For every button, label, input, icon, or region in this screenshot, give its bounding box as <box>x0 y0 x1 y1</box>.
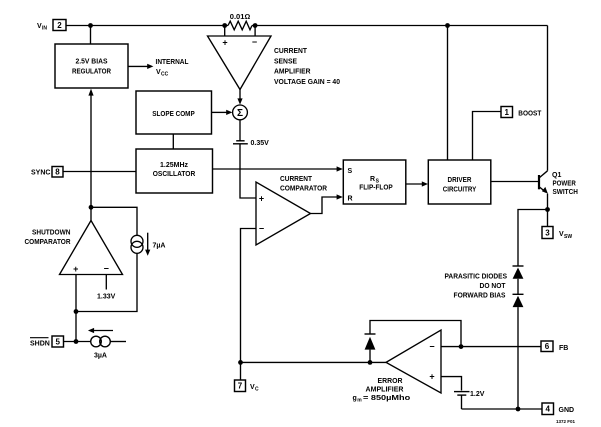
svg-text:g: g <box>353 395 357 402</box>
svg-text:FLIP-FLOP: FLIP-FLOP <box>359 184 393 191</box>
svg-text:+: + <box>222 38 227 48</box>
pin 3 VSW <box>542 227 553 239</box>
wire VSW node to pin 3 <box>547 210 549 227</box>
label SHUTDOWN COMPARATOR <box>25 230 71 246</box>
svg-text:BOOST: BOOST <box>518 110 542 117</box>
pin SHDN label (overline) <box>30 341 50 348</box>
svg-text:SHUTDOWN: SHUTDOWN <box>32 230 71 237</box>
wire Q1 collector to VIN rail <box>547 26 549 171</box>
junction dot resistor left node <box>222 23 227 28</box>
junction dot VIN/driver branch <box>445 23 450 28</box>
diode D1 parasitic <box>513 266 524 279</box>
diode D3 clamp <box>365 334 376 350</box>
wire driver to BOOST pin <box>473 112 502 161</box>
svg-text:INTERNAL: INTERNAL <box>156 59 190 66</box>
wire Q1 emitter to VSW node <box>547 194 549 210</box>
op-amp shutdown comparator <box>60 221 123 275</box>
battery 0.35V <box>233 141 248 144</box>
label INTERNAL VCC <box>156 59 190 78</box>
wire SHDN line <box>64 341 91 343</box>
svg-text:−: − <box>429 342 434 352</box>
wire sense amp output to summer <box>239 90 241 100</box>
svg-text:SYNC: SYNC <box>31 170 50 177</box>
label Q1 POWER SWITCH <box>552 172 578 196</box>
battery 1.2V <box>454 392 470 396</box>
wire internal VCC output arrow <box>128 64 153 69</box>
wire shutdown + input to SHDN line <box>75 275 77 342</box>
label PARASITIC DIODES DO NOT FORWARD BIAS <box>445 274 508 300</box>
pin 7 VC <box>235 380 246 392</box>
wire slope comp to oscillator <box>172 134 174 149</box>
wire VIN top rail right segment <box>252 25 548 27</box>
wire slope comp to summer <box>212 111 228 113</box>
svg-text:CIRCUITRY: CIRCUITRY <box>443 187 477 194</box>
svg-text:1372 F01: 1372 F01 <box>556 419 576 424</box>
svg-text:R: R <box>370 176 375 183</box>
wire VSW node to parasitic diode chain <box>518 210 548 267</box>
transistor Q1 <box>539 171 548 194</box>
op-amp current sense amplifier <box>208 36 272 90</box>
wire error amp - input to FB pin <box>441 346 541 348</box>
reference 1.33V stub <box>105 275 107 290</box>
label CURRENT SENSE AMPLIFIER VOLTAGE GAIN = 40 <box>274 48 340 86</box>
wire 3uA source right stub <box>110 341 126 343</box>
resistor 0.01Ω current sense <box>228 21 252 30</box>
wire bias regulator to shutdown comparator (arrow up) <box>88 89 93 221</box>
junction dot VSW node <box>545 207 550 212</box>
svg-text:SW: SW <box>564 234 572 240</box>
arrow 3uA direction <box>88 328 113 333</box>
wire 7uA source to + input node <box>76 253 137 311</box>
wire VIN rail to driver top <box>447 26 449 161</box>
svg-text:3: 3 <box>545 228 550 237</box>
svg-text:+: + <box>259 194 264 204</box>
svg-text:R: R <box>348 196 353 203</box>
wire battery to ground rail <box>461 395 463 409</box>
junction dot resistor right node <box>253 23 258 28</box>
wire ground rail <box>462 408 543 410</box>
svg-text:IN: IN <box>42 26 47 32</box>
wire VIN to bias regulator <box>90 26 92 45</box>
svg-text:SENSE: SENSE <box>274 58 297 65</box>
svg-text:CC: CC <box>161 72 169 78</box>
junction dot VC node <box>238 360 243 365</box>
svg-text:AMPLIFIER: AMPLIFIER <box>366 386 404 393</box>
svg-text:GND: GND <box>559 407 575 414</box>
svg-text:S: S <box>348 168 353 175</box>
op-amp current comparator <box>256 182 311 245</box>
pin 4 GND <box>542 403 554 415</box>
label VC <box>250 384 259 393</box>
block RS flip-flop <box>343 160 406 204</box>
wire clamp diode to error amp output <box>369 350 371 363</box>
wire sense amp - input stub <box>254 26 256 37</box>
svg-text:COMPARATOR: COMPARATOR <box>280 185 327 192</box>
svg-text:POWER: POWER <box>553 181 576 188</box>
svg-text:7µA: 7µA <box>153 243 166 250</box>
arrow 7uA direction <box>145 233 150 256</box>
svg-text:CURRENT: CURRENT <box>274 48 308 55</box>
pin 1 BOOST <box>501 107 513 118</box>
block slope comp <box>136 91 212 134</box>
svg-text:7: 7 <box>238 382 243 391</box>
wire error amp output to VC node <box>241 361 387 363</box>
block 1.25MHz oscillator <box>136 149 213 193</box>
current source 3uA <box>91 336 111 347</box>
wire oscillator to flip-flop S input <box>213 166 343 171</box>
block driver circuitry <box>428 160 491 204</box>
svg-text:0.01Ω: 0.01Ω <box>230 14 251 21</box>
svg-text:4: 4 <box>545 405 550 414</box>
svg-text:1.33V: 1.33V <box>97 293 116 300</box>
label ERROR AMPLIFIER gm = 850uMho <box>353 378 411 404</box>
wire between parasitic diodes <box>517 279 519 295</box>
svg-text:REGULATOR: REGULATOR <box>72 69 111 76</box>
label VSW <box>559 231 572 240</box>
svg-text:DRIVER: DRIVER <box>448 177 472 184</box>
svg-text:= 850µMho: = 850µMho <box>363 395 410 402</box>
svg-text:+: + <box>73 264 78 274</box>
svg-text:8: 8 <box>55 168 60 177</box>
wire comparator - input to VC node <box>241 229 257 363</box>
svg-text:COMPARATOR: COMPARATOR <box>25 239 71 246</box>
svg-text:0.35V: 0.35V <box>251 140 270 147</box>
svg-text:−: − <box>104 264 109 274</box>
svg-text:6: 6 <box>545 342 550 351</box>
wire VIN top rail left segment <box>66 25 228 27</box>
svg-text:m: m <box>357 398 362 404</box>
svg-text:CURRENT: CURRENT <box>280 176 313 183</box>
svg-text:5: 5 <box>55 337 60 346</box>
svg-text:1.25MHz: 1.25MHz <box>160 162 188 169</box>
svg-text:2.5V BIAS: 2.5V BIAS <box>76 59 108 66</box>
svg-text:+: + <box>429 372 434 382</box>
pin 6 FB <box>541 341 553 352</box>
wire comparator output to flip-flop R input <box>311 194 343 213</box>
wire SYNC to oscillator <box>63 171 136 173</box>
svg-text:1: 1 <box>504 108 509 117</box>
wire summer to battery 0.35V <box>239 120 241 141</box>
wire sense amp + input stub <box>224 26 226 37</box>
svg-text:VOLTAGE GAIN = 40: VOLTAGE GAIN = 40 <box>274 79 340 86</box>
svg-text:DO NOT: DO NOT <box>480 283 507 290</box>
svg-text:SLOPE COMP: SLOPE COMP <box>152 111 195 118</box>
junction dot FB node <box>459 344 464 349</box>
svg-text:OSCILLATOR: OSCILLATOR <box>153 171 196 178</box>
junction dot error amp output / clamp diode <box>368 360 373 365</box>
wire error amp + input to 1.2V battery <box>441 377 462 391</box>
wire driver to Q1 base <box>491 181 539 183</box>
pin 8 SYNC <box>52 167 63 178</box>
svg-text:SHDN: SHDN <box>30 341 50 348</box>
wire battery to comparator + input <box>240 144 256 198</box>
summer node sigma <box>233 105 248 120</box>
svg-text:C: C <box>255 387 259 393</box>
svg-text:3µA: 3µA <box>94 353 107 360</box>
current source 7uA <box>131 235 143 253</box>
diode D2 parasitic <box>513 294 524 307</box>
wire diode chain to ground rail <box>517 307 519 409</box>
label CURRENT COMPARATOR <box>280 176 327 192</box>
svg-text:PARASITIC DIODES: PARASITIC DIODES <box>445 274 508 281</box>
svg-text:2: 2 <box>57 21 62 30</box>
svg-text:FB: FB <box>559 345 568 352</box>
junction dot shutdown apex node <box>89 205 94 210</box>
pin 2 VIN <box>53 20 66 31</box>
svg-text:Q1: Q1 <box>552 172 561 179</box>
wire apex node to 7uA current source <box>91 207 137 235</box>
junction dot VIN/bias-regulator <box>88 23 93 28</box>
wire clamp diode loop FB node <box>370 321 461 347</box>
junction dot diode chain / ground <box>516 407 521 412</box>
svg-text:FORWARD BIAS: FORWARD BIAS <box>454 292 506 299</box>
svg-text:SWITCH: SWITCH <box>553 189 578 196</box>
svg-text:ERROR: ERROR <box>378 378 403 385</box>
op-amp error amplifier <box>386 330 441 393</box>
svg-text:1.2V: 1.2V <box>470 391 485 398</box>
svg-text:−: − <box>252 37 257 47</box>
svg-text:−: − <box>259 224 264 234</box>
junction dot SHDN node <box>74 339 79 344</box>
wire VC node to pin 7 <box>240 362 242 380</box>
svg-text:AMPLIFIER: AMPLIFIER <box>274 69 311 76</box>
pin 5 SHDN <box>52 336 64 347</box>
junction dot + input node <box>74 309 79 314</box>
pin VIN label <box>37 23 47 32</box>
svg-text:Σ: Σ <box>237 108 243 119</box>
wire flip-flop to driver <box>406 181 428 186</box>
block 2.5V bias regulator <box>55 44 128 88</box>
